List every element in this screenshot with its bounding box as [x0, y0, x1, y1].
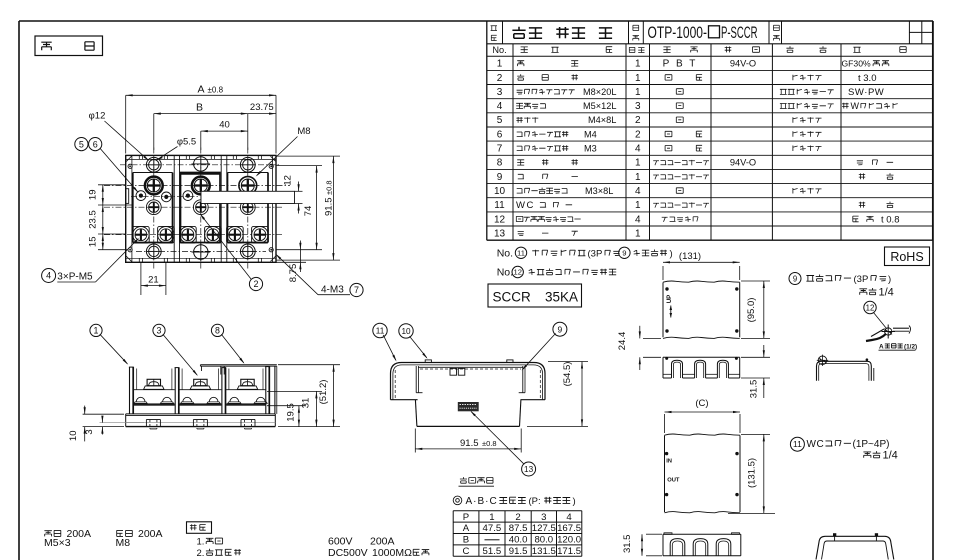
top view: pole inner recess rectangles: [133, 173, 268, 243]
svg-text:P: P: [463, 512, 469, 523]
svg-text:3: 3: [541, 512, 546, 523]
svg-text:13: 13: [494, 228, 506, 239]
svg-text:8: 8: [497, 158, 503, 169]
svg-text:600V: 600V: [328, 536, 353, 548]
svg-text:167.5: 167.5: [557, 523, 581, 534]
svg-text:74: 74: [303, 206, 314, 217]
dimension B (pole1 to pole3 centers): [154, 101, 248, 150]
svg-text:5: 5: [79, 139, 84, 149]
svg-text:2: 2: [635, 115, 641, 126]
svg-text:1: 1: [497, 59, 503, 70]
row 12 anti-pullout washer / polyamide / white t0.8: [516, 214, 899, 225]
svg-text:171.5: 171.5: [557, 546, 581, 557]
top view: pole3 top screw hole: [240, 157, 255, 172]
label phi12 with leader: [89, 111, 150, 162]
table title: model label katab an: [633, 25, 639, 40]
callout circles 5 6 with leader: [75, 138, 139, 194]
front view: pole 3 terminal parts: [226, 369, 267, 406]
row 5 flat screw M4x8L: [516, 115, 821, 125]
svg-text:4: 4: [566, 512, 572, 523]
svg-text:91.5: 91.5: [509, 546, 528, 557]
label scale 1/4 for WC cover: [863, 449, 897, 461]
svg-text:(95.0): (95.0): [746, 298, 757, 323]
svg-text:3: 3: [84, 429, 95, 434]
svg-text:200A: 200A: [138, 528, 163, 540]
svg-text:M3×8L: M3×8L: [585, 186, 613, 196]
svg-text:B: B: [463, 535, 469, 546]
WC cover top view: corner screws: [665, 452, 739, 496]
svg-text:(C): (C): [695, 398, 708, 409]
dimension 40 (pole2 to pole3): [201, 114, 248, 150]
svg-text:(1P~4P): (1P~4P): [853, 439, 890, 450]
front view: base plate: [126, 414, 276, 427]
front view callout 1 (base): [90, 324, 128, 365]
svg-text:10: 10: [68, 431, 79, 442]
row 2 conductor plate / brass / nickel / t3.0: [517, 73, 876, 84]
WC cover dimension 31.5 left: [622, 534, 662, 556]
svg-text:40: 40: [219, 120, 230, 131]
svg-text:23.75: 23.75: [250, 102, 274, 113]
svg-text:23.5: 23.5: [88, 210, 99, 229]
svg-text:±0.8: ±0.8: [482, 439, 497, 448]
side view dimension (54.5): [527, 362, 588, 427]
side view dimension 91.5 +-0.8: [415, 429, 521, 453]
svg-text:1: 1: [635, 87, 641, 98]
WC cover top view: outline with wavy break edges: [665, 434, 741, 513]
top view: horizontal centerlines: [104, 165, 290, 252]
svg-text:19: 19: [88, 190, 99, 201]
performance item 1 rating: [197, 536, 395, 548]
row 13 seal: [518, 231, 578, 236]
svg-text:1/4: 1/4: [879, 286, 894, 298]
std cover top view: outline with wavy break edges: [663, 281, 740, 338]
svg-text:8: 8: [215, 326, 220, 336]
svg-text:1.: 1.: [197, 537, 205, 548]
dimension 23.75: [248, 102, 276, 115]
svg-text:(54.5): (54.5): [562, 362, 573, 387]
std cover dimension 24.4: [617, 326, 661, 370]
front view: partition wall 1: [175, 368, 180, 414]
svg-text:OUT: OUT: [667, 478, 680, 484]
std cover dimension 31.5 right: [741, 345, 770, 398]
svg-text:15: 15: [88, 237, 99, 248]
right dimension 8.75: [276, 241, 306, 283]
WC cover top view: IN OUT marks: [666, 458, 680, 483]
svg-text:(P:: (P:: [529, 496, 541, 507]
table title: model number OTP-1000-[]P-SCCR: [648, 23, 758, 42]
svg-text:A·B·C: A·B·C: [466, 496, 498, 507]
svg-text:7: 7: [497, 144, 503, 155]
svg-text:91.5: 91.5: [324, 198, 335, 217]
svg-text:24.4: 24.4: [617, 332, 628, 351]
svg-text:51.5: 51.5: [483, 546, 502, 557]
table column headers: [492, 45, 906, 55]
svg-text:8.75: 8.75: [288, 264, 299, 283]
callout 2 conductor plate leader: [200, 214, 263, 291]
right dimension 74: [276, 166, 322, 250]
svg-text:t 3.0: t 3.0: [858, 73, 877, 84]
svg-text:B: B: [196, 101, 203, 113]
top view: bottom screw holes row: [146, 243, 255, 262]
svg-text:φ5.5: φ5.5: [177, 137, 196, 148]
svg-text:A: A: [198, 83, 205, 95]
side view: WC cover outer profile: [391, 363, 546, 400]
svg-text:A: A: [879, 343, 884, 350]
front view: partition wall 2: [221, 368, 226, 414]
svg-text:87.5: 87.5: [509, 523, 528, 534]
WC cover side comb view: [663, 533, 741, 556]
top view: marking plate (part 8) overlay band: [201, 191, 303, 203]
std cover side comb view: [663, 357, 740, 378]
top view: pole2 top screw hole: [192, 155, 211, 174]
svg-text:2: 2: [515, 512, 520, 523]
side view callout 13 with leader: [470, 411, 535, 477]
svg-text:t 0.8: t 0.8: [881, 214, 900, 225]
side view callout 11 (WC cover): [373, 323, 397, 361]
callout 4: 3xP-M5 with leader: [42, 238, 140, 283]
table data rows: [494, 59, 641, 240]
svg-text:P B T: P B T: [663, 59, 698, 70]
top view: pole1 top screw hole phi12/phi5.5: [146, 157, 161, 172]
svg-text:9: 9: [793, 274, 797, 283]
svg-text:2: 2: [497, 73, 503, 84]
svg-text:12: 12: [513, 268, 521, 277]
svg-text:4: 4: [497, 101, 503, 112]
svg-text:No.: No.: [492, 45, 506, 55]
svg-text:4: 4: [46, 271, 51, 281]
svg-text:47.5: 47.5: [483, 523, 502, 534]
side view: cover mounting screws (10) bumps: [425, 360, 513, 363]
svg-text:1000MΩ: 1000MΩ: [372, 547, 412, 559]
callout 12 washer with leader: [864, 301, 887, 328]
table title: hinmei label: [491, 26, 497, 41]
side view callout 9 (standard cover): [522, 322, 567, 370]
note No.11 option: [497, 247, 673, 260]
side view: seal label (13): [458, 402, 479, 411]
svg-text:5: 5: [497, 115, 503, 126]
svg-text:): ): [888, 274, 891, 285]
table title: product name bunki-tanshidai: [512, 27, 612, 39]
ABC dimension table title: [453, 496, 575, 507]
ratings text: output input: [44, 528, 163, 549]
svg-text:3: 3: [635, 101, 641, 112]
svg-text:131.5: 131.5: [532, 546, 556, 557]
top view: middle M5 wiring screws: [146, 200, 255, 215]
svg-text:94V-O: 94V-O: [730, 158, 756, 168]
svg-text:4-M3: 4-M3: [321, 284, 344, 295]
top view: side slot on left wall: [126, 189, 129, 204]
svg-text:M8×20L: M8×20L: [583, 87, 616, 97]
performance item 2 insulation resistance: [197, 547, 430, 559]
top view: corner M3 screw holes (4-M3): [128, 164, 273, 252]
svg-text:1: 1: [635, 158, 641, 169]
performance box label: [187, 522, 212, 534]
svg-text:12: 12: [494, 214, 506, 225]
svg-text:200A: 200A: [370, 536, 395, 548]
svg-text:RoHS: RoHS: [890, 250, 923, 264]
front view callout 8 (marking plate): [211, 324, 244, 364]
svg-text:1/4: 1/4: [883, 449, 898, 461]
top view: pole divider walls: [174, 155, 227, 262]
svg-text:±0.8: ±0.8: [325, 180, 334, 195]
row 11 WC cover / polycarbonate / clear: [516, 200, 894, 211]
side view title: left side view label: [459, 477, 495, 486]
svg-text:2.: 2.: [197, 548, 205, 559]
label 11 WC cover 1P-4P: [790, 437, 889, 451]
dimension 21 (bottom): [141, 262, 166, 295]
svg-text:1: 1: [635, 200, 641, 211]
svg-text:No.: No.: [497, 248, 513, 260]
note No.12 standard cover only: [497, 266, 617, 278]
svg-text:(3P: (3P: [588, 248, 603, 259]
svg-text:SW·PW: SW·PW: [848, 87, 884, 98]
svg-text:11: 11: [494, 200, 505, 211]
reference stamp SANKO box: [35, 36, 103, 56]
top view: insert fitting holes with dots: [136, 191, 265, 202]
top view: pole2 M8 upset bolt: [192, 177, 210, 195]
std cover top view: UP mark with arrow: [666, 295, 673, 318]
svg-text:12: 12: [283, 175, 294, 186]
right dimension 91.5 +-0.8: [276, 156, 340, 260]
svg-text:21: 21: [148, 275, 159, 286]
svg-text:UP: UP: [666, 295, 673, 304]
side view: body lower part: [415, 400, 521, 427]
svg-text:31.5: 31.5: [622, 535, 633, 554]
label scale 1/4 for std cover: [859, 286, 893, 298]
svg-text:DC500V: DC500V: [328, 547, 368, 559]
front view callout 3 (M8 bolt): [153, 324, 198, 376]
label phi5.5 with leader: [156, 137, 196, 161]
svg-text:3: 3: [157, 326, 162, 336]
svg-text:4: 4: [635, 144, 641, 155]
svg-text:1: 1: [94, 326, 99, 336]
svg-text:94V-O: 94V-O: [730, 59, 756, 69]
front view left dimension 3: [84, 416, 144, 435]
WC cover dimension (131.5): [728, 434, 775, 513]
std cover dimension (131): [663, 251, 740, 280]
front view: right end wall and cover edge: [265, 366, 277, 414]
svg-text:127.5: 127.5: [532, 523, 556, 534]
front view: mounting feet with hidden lines: [146, 420, 255, 429]
svg-text:SCCR: SCCR: [493, 289, 532, 304]
row 10 cover screw M3x8L: [517, 186, 822, 196]
label 9 standard cover 3P only: [789, 273, 891, 285]
svg-text:φ12: φ12: [89, 111, 106, 122]
svg-text:13: 13: [524, 465, 534, 474]
svg-text:(1/2): (1/2): [904, 343, 917, 350]
top view: corner chamfer marks: [126, 156, 275, 261]
top view: body outline: [126, 155, 276, 262]
svg-text:IN: IN: [666, 458, 672, 464]
parts table grid: [487, 21, 933, 240]
svg-text:6: 6: [497, 129, 503, 140]
svg-text:W: W: [851, 101, 860, 111]
svg-text:): ): [670, 248, 673, 259]
top view: edge slot notches: [139, 155, 261, 262]
washer detail drawing (A section): [866, 325, 911, 342]
svg-text:11: 11: [793, 439, 802, 449]
svg-text:11: 11: [517, 249, 525, 258]
SCCR 35KA box: [488, 284, 582, 307]
ABC dimension table data: [463, 512, 582, 557]
svg-text:11: 11: [376, 327, 385, 336]
front view right dimension 31: [267, 391, 322, 426]
row 6 insert fitting M4: [517, 129, 822, 139]
row 1 kidai / PBT / 94V-O / GF30 black: [517, 59, 889, 70]
svg-text:120.0: 120.0: [557, 535, 581, 546]
svg-text:M4: M4: [584, 129, 597, 139]
svg-text:M3: M3: [584, 144, 597, 154]
svg-text:OTP-1000-: OTP-1000-: [648, 23, 708, 42]
front view: pole 1 terminal parts: [134, 369, 175, 406]
svg-text:): ): [573, 496, 576, 507]
svg-text:C: C: [463, 546, 470, 557]
row 3 upset bolt M8x20L / iron / trivalent chromate / SW PW: [517, 87, 885, 98]
RoHS box: [885, 247, 930, 266]
row 7 insert fitting M3: [517, 144, 822, 154]
front view right dimension (51.2): [278, 365, 340, 427]
svg-text:M8: M8: [297, 126, 310, 137]
svg-text:91.5: 91.5: [460, 438, 479, 449]
svg-text:12: 12: [866, 303, 875, 312]
svg-text:1: 1: [635, 73, 641, 84]
svg-text:±0.8: ±0.8: [208, 85, 224, 94]
svg-text:M8: M8: [116, 537, 131, 549]
svg-text:(51.2): (51.2): [318, 380, 329, 405]
svg-text:9: 9: [622, 249, 626, 258]
svg-text:80.0: 80.0: [534, 535, 553, 546]
svg-text:9: 9: [558, 324, 563, 334]
svg-text:31.5: 31.5: [748, 380, 759, 399]
svg-text:1: 1: [635, 228, 641, 239]
svg-text:1: 1: [635, 172, 641, 183]
svg-text:7: 7: [354, 285, 359, 295]
svg-text:M5×12L: M5×12L: [583, 101, 616, 111]
std cover top view: corner screws: [665, 287, 738, 332]
svg-text:WC: WC: [807, 439, 825, 450]
svg-text:35KA: 35KA: [545, 289, 578, 304]
front view left dimension 10: [68, 406, 124, 442]
svg-text:10: 10: [494, 186, 506, 197]
svg-text:2: 2: [635, 129, 641, 140]
svg-text:M5×3: M5×3: [44, 537, 71, 549]
table title: zuban label: [773, 25, 779, 40]
svg-text:No.: No.: [497, 267, 513, 279]
svg-text:GF30%: GF30%: [842, 59, 871, 69]
svg-text:(131): (131): [679, 251, 701, 262]
top view: bottom M5 terminal screws with square washers: [133, 226, 269, 243]
svg-text:WC: WC: [516, 200, 535, 211]
front view right dimension 19.5: [267, 403, 305, 426]
row 9 cover / polycarbonate / clear: [518, 173, 894, 179]
svg-text:A: A: [463, 523, 470, 534]
left dimension chain 19 / 23.5 / 15: [88, 185, 134, 250]
dimension A +-0.8 (top overall width): [126, 83, 276, 153]
svg-text:(3P: (3P: [854, 274, 869, 285]
svg-text:2: 2: [253, 279, 258, 289]
WC cover dimension (C): [665, 398, 741, 433]
label M8 with leader: [256, 126, 311, 177]
svg-text:3×P-M5: 3×P-M5: [57, 272, 93, 283]
WC cover profile small drawing: [816, 533, 894, 559]
svg-text:19.5: 19.5: [286, 403, 297, 422]
svg-text:4: 4: [635, 214, 641, 225]
svg-text:1: 1: [489, 512, 494, 523]
row 4 wiring screw M5x12L: [516, 101, 898, 111]
side view callout 10 (cover screw): [399, 324, 428, 359]
callout 7: 4-M3 with leader: [275, 254, 363, 297]
top view: pole3 M8 upset bolt: [239, 177, 257, 195]
svg-text:M4×8L: M4×8L: [588, 115, 616, 125]
front view: marking plate (8) on top: [200, 365, 276, 375]
std cover profile small drawing with washer symbol: [817, 355, 874, 381]
svg-text:6: 6: [93, 139, 98, 149]
row 8 marking plate / polycarbonate / 94V-O / gray: [517, 158, 893, 168]
ABC dimension table grid: [453, 511, 582, 557]
side view: standard cover inside: [416, 366, 525, 393]
top view: pole1 M8 upset bolt: [145, 177, 163, 195]
svg-text:3: 3: [497, 87, 503, 98]
svg-text:31: 31: [301, 398, 312, 409]
front view: left end wall: [129, 367, 134, 414]
svg-text:1: 1: [635, 59, 641, 70]
side view: inner rib tabs: [450, 368, 465, 375]
svg-text:10: 10: [401, 327, 411, 336]
svg-text:(131.5): (131.5): [746, 458, 757, 488]
top view: pole centerlines: [154, 148, 248, 271]
svg-text:4: 4: [635, 186, 641, 197]
std cover dimension (95.0): [741, 281, 770, 338]
svg-text:9: 9: [497, 172, 503, 183]
right dimension 12 (marking plate width): [283, 175, 300, 213]
washer detail caption A-bu detail 1/2: [879, 343, 918, 350]
svg-text:40.0: 40.0: [509, 535, 528, 546]
front view: pole 2 terminal parts: [179, 369, 221, 406]
svg-text:P-SCCR: P-SCCR: [721, 23, 758, 42]
